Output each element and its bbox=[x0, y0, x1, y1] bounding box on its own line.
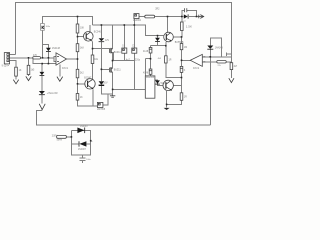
diode D6 bbox=[207, 46, 213, 49]
wire pin1 bbox=[10, 53, 16, 55]
wire bias chain top to emitter bbox=[151, 45, 166, 47]
wire diode clamp loop bbox=[43, 44, 49, 48]
wire R 1R bottom bbox=[166, 63, 182, 78]
svg-text:BC556B: BC556B bbox=[175, 42, 184, 44]
transistor Q4 bbox=[163, 80, 173, 90]
svg-text:1N4007: 1N4007 bbox=[80, 126, 89, 128]
capacitor C4 box bbox=[122, 48, 127, 53]
ground mid bbox=[110, 95, 115, 97]
junction J11 bbox=[28, 57, 30, 59]
svg-text:BUZ11: BUZ11 bbox=[114, 70, 122, 72]
big box module bbox=[145, 76, 155, 98]
junction J2 bbox=[167, 16, 169, 18]
svg-text:12V: 12V bbox=[105, 40, 110, 42]
wire main input line bbox=[10, 57, 33, 59]
resistor R8 x92.5 bbox=[91, 55, 94, 64]
svg-text:230V: 230V bbox=[52, 136, 58, 138]
wire opamp2 output bbox=[182, 59, 191, 61]
junction J4 bbox=[196, 16, 198, 18]
svg-text:4148: 4148 bbox=[143, 51, 149, 53]
ground right rail bbox=[229, 78, 234, 82]
junction J3 bbox=[181, 16, 183, 18]
arrow out symbol bbox=[198, 15, 200, 19]
wire x134.3 drop bbox=[133, 61, 135, 90]
wire top rail bbox=[16, 3, 232, 78]
wire collector Q3 bbox=[167, 17, 169, 33]
wire emitter Q4 gnd bbox=[166, 91, 168, 108]
wire R10K top bbox=[77, 17, 79, 25]
wire opamp1 out bbox=[67, 58, 78, 60]
ground R2 bbox=[26, 76, 31, 80]
wire R 1K gnd bbox=[15, 76, 17, 79]
mosfet M2 bbox=[109, 67, 112, 72]
svg-text:1K: 1K bbox=[19, 70, 22, 72]
wire cap C4 stubs bbox=[123, 25, 125, 48]
junction J27 bbox=[210, 56, 212, 58]
junction J8 bbox=[77, 36, 79, 38]
fuse F1 bbox=[57, 135, 67, 138]
resistor R11 rail bbox=[180, 44, 183, 50]
wire inner top rail bbox=[43, 17, 93, 26]
junction J29 bbox=[90, 140, 92, 142]
wire LED branch bbox=[41, 64, 43, 72]
wire opamp2 inputs bbox=[202, 56, 231, 58]
junction J24 bbox=[77, 83, 79, 85]
wire vbe tap bbox=[145, 58, 150, 60]
junction J7 bbox=[134, 24, 136, 26]
wire zener rail x101.4 bbox=[100, 25, 102, 38]
junction J20 bbox=[181, 36, 183, 38]
wire bridge loop bbox=[71, 130, 90, 155]
diode D5 bbox=[155, 80, 160, 83]
svg-text:9-12V=: 9-12V= bbox=[2, 65, 10, 67]
svg-text:BC546: BC546 bbox=[94, 32, 102, 34]
resistor R10 1R bbox=[165, 56, 168, 63]
bridge diode DM bbox=[79, 141, 86, 146]
junction J6 bbox=[124, 24, 126, 26]
svg-text:1N4148: 1N4148 bbox=[52, 48, 61, 50]
arrow end LED branch bbox=[39, 104, 45, 110]
op-amp U4 bbox=[190, 54, 202, 66]
bridge diode DT bbox=[77, 128, 84, 134]
component U2 box top bbox=[134, 14, 139, 19]
wire gate1 from x92.5 bbox=[93, 48, 110, 50]
wire top resistor row bbox=[139, 16, 145, 18]
connector J1 bbox=[4, 53, 9, 64]
wire pin3 bbox=[10, 61, 17, 67]
svg-text:IC6=2: IC6=2 bbox=[193, 68, 200, 70]
svg-text:IC6=1: IC6=1 bbox=[62, 68, 69, 70]
svg-text:5V6: 5V6 bbox=[161, 83, 166, 85]
junction J19 bbox=[181, 60, 183, 62]
svg-text:10K: 10K bbox=[80, 28, 85, 30]
bias diode DB1 bbox=[149, 48, 152, 54]
wire emitter Q1 to x92.5 bbox=[92, 40, 93, 48]
diode D4 bbox=[155, 38, 160, 41]
wire collector Q1 bbox=[89, 25, 91, 32]
wire y25 rail bbox=[93, 25, 164, 36]
wire base Q2 bbox=[78, 83, 88, 85]
svg-text:220p: 220p bbox=[135, 59, 141, 61]
wire R 1.5K branch bbox=[181, 17, 183, 23]
junction J9 bbox=[157, 35, 159, 37]
wire x92.5 rail bbox=[92, 49, 94, 55]
wire fb gnd stub bbox=[59, 64, 61, 76]
svg-text:10V: 10V bbox=[103, 82, 108, 84]
capacitor C6 loop bbox=[183, 8, 185, 12]
wire emitter Q2 down bbox=[92, 89, 94, 106]
junction J1 bbox=[77, 16, 79, 18]
wire fb cap stub bbox=[227, 53, 232, 55]
wire output node bbox=[209, 57, 211, 125]
wire cap C5 stubs bbox=[133, 19, 135, 48]
svg-text:100u: 100u bbox=[46, 26, 50, 28]
wire base Q1 bbox=[78, 36, 85, 38]
ground Q4 bbox=[164, 108, 170, 110]
LED D3 yellow bbox=[39, 91, 45, 94]
transistor Q3 bbox=[164, 32, 174, 42]
wire R bottom corner to emitter node bbox=[167, 100, 182, 104]
junction J15 bbox=[48, 63, 50, 65]
junction J23 bbox=[112, 89, 114, 91]
junction J12 bbox=[77, 58, 79, 60]
svg-text:1N4148: 1N4148 bbox=[215, 47, 224, 49]
svg-text:+.: +. bbox=[91, 141, 93, 143]
resistor R4 10K bbox=[76, 24, 79, 33]
bias diode DB2 bbox=[149, 69, 152, 74]
svg-text:1K: 1K bbox=[80, 97, 83, 99]
resistor R7 1K bbox=[76, 94, 79, 101]
diode D2 bbox=[40, 72, 45, 75]
resistor R6 2k2 bbox=[76, 69, 79, 78]
junction J22 bbox=[166, 104, 168, 106]
wire R 1k5 branch bbox=[28, 58, 30, 66]
resistor R1 1K bbox=[15, 67, 18, 76]
transistor Q2 bbox=[85, 79, 95, 89]
svg-text:1N4004: 1N4004 bbox=[133, 20, 142, 22]
wire bridge chord bbox=[71, 143, 78, 145]
svg-text:1N4007: 1N4007 bbox=[78, 149, 87, 151]
wire vertical C1 branch bbox=[42, 29, 44, 58]
wire emitter Q3 down bbox=[165, 41, 168, 55]
resistor R5 1k8 bbox=[76, 44, 79, 52]
wire Q4 right bbox=[173, 85, 181, 87]
svg-text:MJ2955: MJ2955 bbox=[146, 77, 155, 79]
wire feedback bbox=[33, 58, 56, 64]
wire arrow out bbox=[189, 16, 199, 18]
resistor R12 1.5K bbox=[181, 22, 184, 31]
diode D1 1N4148 bbox=[46, 48, 51, 51]
resistor R9 2R2 bbox=[145, 15, 155, 18]
wire opamp1 input stubs bbox=[54, 57, 56, 58]
svg-text:2R2: 2R2 bbox=[155, 9, 160, 11]
svg-text:1.5K: 1.5K bbox=[186, 25, 192, 29]
svg-text:BC547: BC547 bbox=[84, 77, 92, 79]
wire diode chain top bbox=[157, 36, 159, 38]
wire bridge cap bbox=[82, 155, 84, 158]
ground fb bbox=[57, 77, 63, 82]
transistor Q1 bbox=[84, 32, 94, 42]
mosfet M1 bbox=[109, 48, 112, 53]
junction J14 bbox=[41, 63, 43, 65]
capacitor C5 box bbox=[132, 48, 137, 53]
wire caps bottom bus bbox=[113, 53, 135, 61]
wire gnd bus y89.4 bbox=[113, 88, 146, 90]
wire right rail resistor gap bbox=[230, 70, 232, 78]
wire AC fuse bbox=[66, 136, 71, 138]
wire zobel U bbox=[209, 49, 211, 57]
svg-text:1M: 1M bbox=[184, 47, 187, 49]
junction J16 bbox=[48, 57, 50, 59]
svg-text:+YELLOW: +YELLOW bbox=[47, 93, 59, 95]
wire rail x181.5 bbox=[181, 37, 183, 44]
svg-text:4148: 4148 bbox=[143, 73, 149, 75]
wire bottom rail bbox=[37, 111, 211, 126]
junction J26 bbox=[101, 69, 103, 71]
junction J17 bbox=[150, 58, 152, 60]
svg-text:BUZ11: BUZ11 bbox=[114, 52, 122, 54]
svg-text:100n: 100n bbox=[86, 159, 90, 161]
junction J10 bbox=[42, 57, 44, 59]
resistor R2 1k5 bbox=[27, 65, 30, 74]
wire bottom of R 1k to rail bbox=[78, 100, 98, 106]
resistor R13 h bbox=[217, 61, 226, 64]
junction J28 bbox=[71, 136, 73, 138]
junction J13 bbox=[92, 48, 94, 50]
svg-text:LM7805: LM7805 bbox=[97, 109, 106, 111]
svg-text:1R: 1R bbox=[184, 96, 187, 98]
zener ZD2 bbox=[99, 81, 105, 85]
svg-text:1R: 1R bbox=[169, 60, 172, 62]
junction J21 bbox=[181, 77, 183, 79]
ground pin3 bbox=[13, 80, 18, 84]
junction J18 bbox=[165, 45, 167, 47]
resistor R14 4k7 bbox=[230, 63, 233, 70]
wire mosfet column x112.5 bbox=[112, 25, 114, 49]
regulator box U3 bbox=[97, 102, 103, 107]
resistor R15 rail bbox=[180, 93, 183, 101]
op-amp U1 bbox=[56, 53, 67, 65]
svg-text:47K: 47K bbox=[33, 55, 38, 57]
wire reg box right bbox=[103, 94, 108, 105]
capacitor C1 bbox=[41, 24, 45, 31]
component box rail bbox=[180, 66, 183, 72]
junction J25 bbox=[112, 60, 114, 62]
svg-text:22k: 22k bbox=[218, 65, 221, 67]
diode D9 on top wire bbox=[184, 14, 188, 18]
resistor R3 47K bbox=[33, 57, 41, 59]
wire cap loop top bbox=[182, 11, 184, 17]
junction J5 bbox=[101, 24, 103, 26]
zener ZD1 bbox=[99, 38, 105, 41]
wire gate2 from zener rail bbox=[101, 68, 109, 70]
svg-text:50Hz: 50Hz bbox=[57, 139, 63, 141]
wire R chain x77.5 bbox=[77, 33, 79, 44]
